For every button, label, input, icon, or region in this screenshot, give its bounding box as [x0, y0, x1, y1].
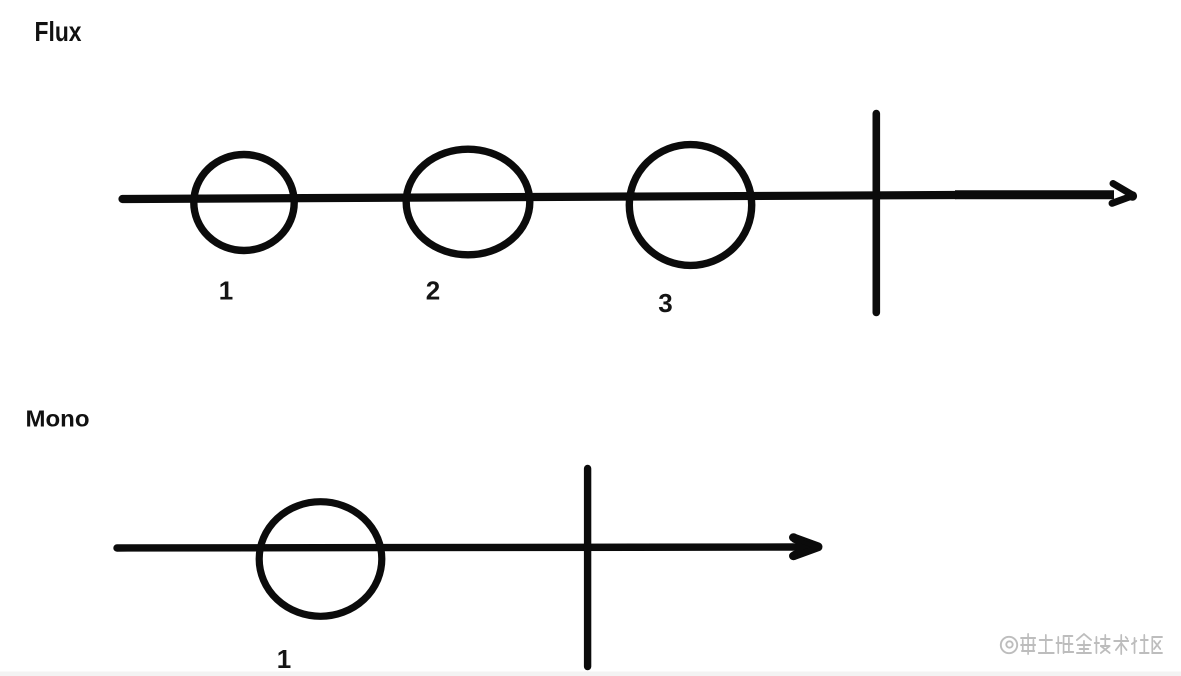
- watermark char 金: [1077, 634, 1091, 653]
- wire: Flux timeline right segment: [955, 190, 1114, 199]
- svg-text:1: 1: [277, 644, 291, 674]
- svg-text:Mono: Mono: [26, 406, 90, 432]
- watermark char 稀: [1021, 634, 1035, 654]
- bottom edge strip: [0, 672, 1181, 676]
- complete bar (Mono): [584, 469, 591, 667]
- watermark char 土: [1039, 635, 1054, 653]
- watermark char 技: [1095, 635, 1110, 653]
- marble circle 3 (Flux): [629, 145, 751, 266]
- watermark @ glyph: [1001, 637, 1017, 653]
- watermark char 术: [1114, 635, 1128, 654]
- svg-text:1: 1: [219, 276, 233, 306]
- arrowhead: Mono timeline: [795, 539, 818, 556]
- marble circle 1 (Flux): [194, 155, 294, 251]
- marble circle 2 (Flux): [406, 149, 530, 255]
- arrowhead: Flux timeline: [1112, 184, 1133, 204]
- svg-text:3: 3: [658, 288, 672, 318]
- wire: Mono timeline: [117, 547, 798, 548]
- wire: Flux timeline left segment: [123, 195, 957, 199]
- watermark char 区: [1152, 637, 1162, 653]
- watermark char 社: [1132, 635, 1149, 653]
- svg-text:2: 2: [426, 276, 440, 306]
- complete bar (Flux): [872, 114, 880, 313]
- svg-text:Flux: Flux: [35, 16, 82, 47]
- marble circle 1 (Mono): [259, 502, 382, 617]
- watermark char 掘: [1056, 636, 1073, 653]
- watermark @稀土掘金技术社区: [1001, 634, 1162, 654]
